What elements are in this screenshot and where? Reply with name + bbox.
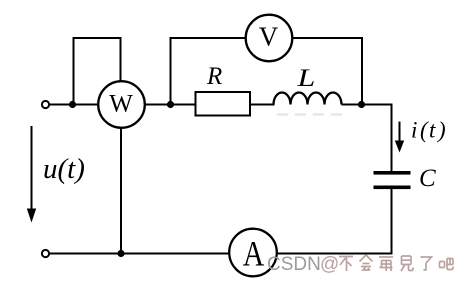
svg-text:i: i [411, 118, 417, 143]
svg-text:CSDN: CSDN [267, 254, 321, 275]
ammeter A [229, 229, 277, 277]
watermark hanzi ba [440, 259, 454, 270]
svg-text:L: L [296, 64, 315, 92]
svg-text:t: t [429, 118, 436, 143]
junction node J2 [167, 101, 174, 108]
svg-text:C: C [419, 165, 436, 192]
svg-text:): ) [436, 118, 446, 143]
wire resistor to inductor [250, 104, 275, 106]
terminal top-left [42, 101, 49, 108]
wattmeter W [98, 81, 145, 128]
junction node J3 [358, 101, 365, 108]
watermark hanzi zai [379, 257, 393, 271]
watermark hanzi hui [360, 255, 373, 271]
wire terminal to wattmeter [50, 104, 99, 106]
voltmeter V [246, 15, 293, 62]
svg-text:A: A [243, 235, 265, 274]
erased artifact dashes under inductor [278, 113, 341, 116]
wire voltmeter branch left [171, 38, 246, 103]
svg-text:R: R [206, 63, 222, 90]
wire node J2 to resistor [171, 104, 197, 106]
wire capacitor to bottom [278, 189, 392, 254]
wire node J3 to capacitor [362, 105, 392, 172]
watermark hanzi jian [401, 256, 413, 271]
wire ammeter to terminal bottom-left [50, 253, 230, 255]
svg-text:W: W [109, 91, 133, 118]
wire voltmeter branch right [293, 38, 363, 103]
resistor R [196, 92, 251, 116]
terminal bottom-left [42, 250, 49, 257]
capacitor C [374, 171, 411, 189]
junction node J4 [117, 250, 124, 257]
wire wattmeter voltage-coil loop [74, 38, 121, 103]
svg-text:u(t): u(t) [43, 153, 85, 185]
svg-text:(: ( [420, 118, 429, 143]
wire inductor to node J3 [342, 104, 363, 106]
junction node J1 [69, 101, 76, 108]
watermark hanzi bu [339, 257, 353, 272]
inductor L [274, 93, 342, 105]
svg-text:@: @ [320, 254, 339, 275]
wire wattmeter current-coil to bottom [120, 128, 122, 254]
watermark hanzi le [421, 257, 432, 270]
wire wattmeter to node J2 [145, 104, 172, 106]
source voltage arrow u(t) [27, 126, 36, 223]
svg-text:V: V [259, 22, 279, 52]
current arrow i(t) [395, 122, 404, 153]
